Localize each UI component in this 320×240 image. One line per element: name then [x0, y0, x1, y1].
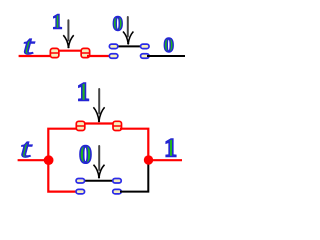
- wire: switch S1 to switch S2: [87, 55, 111, 57]
- input arrow for S4: [94, 146, 105, 178]
- wire: left junction up to top branch: [48, 129, 79, 161]
- junction node left: [44, 155, 54, 165]
- wire: bottom input t to left junction: [18, 159, 46, 161]
- junction node right: [144, 155, 153, 164]
- input arrow for S2: [123, 17, 133, 45]
- svg-text:0: 0: [79, 140, 92, 169]
- wire: switch S2 to top output: [147, 55, 185, 57]
- svg-text:1: 1: [164, 134, 177, 163]
- switch S1 (closed, series, input 1): [50, 48, 90, 57]
- wire: top branch to right junction: [120, 129, 148, 157]
- wire: bottom branch to right junction (black, unpowered): [120, 162, 148, 192]
- input arrow for S1: [63, 20, 73, 48]
- svg-text:1: 1: [77, 77, 90, 106]
- svg-text:0: 0: [164, 33, 175, 57]
- wire: top input t to switch S1: [19, 55, 53, 57]
- switch S3 (closed, parallel top branch, input 1): [76, 121, 122, 130]
- svg-text:1: 1: [52, 9, 63, 33]
- wire: left junction down to bottom branch: [48, 160, 77, 191]
- input arrow for S3: [93, 89, 104, 122]
- switch S4 (open, parallel bottom branch, input 0): [76, 179, 121, 194]
- switch S2 (open, series, input 0): [109, 44, 149, 58]
- svg-text:0: 0: [113, 11, 124, 35]
- wire: right junction to bottom output: [149, 159, 183, 161]
